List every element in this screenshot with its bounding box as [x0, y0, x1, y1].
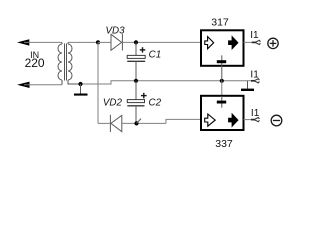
wire VD3 to node B — [122, 41, 200, 43]
wire node D down to U2 — [221, 81, 223, 96]
U2 input hollow arrow — [205, 114, 216, 126]
wire U2 output — [244, 119, 255, 121]
svg-text:C2: C2 — [149, 98, 162, 109]
input arrow bottom — [17, 82, 30, 88]
transformer T1 secondary winding — [68, 42, 81, 84]
U1 output filled arrow — [229, 37, 238, 49]
wire secondary top to node A — [68, 41, 98, 43]
transformer T1 primary winding — [58, 42, 62, 84]
break jack I1 top — [252, 40, 261, 44]
wire node A to VD3 — [98, 41, 111, 43]
capacitor C2 — [127, 81, 144, 124]
diode VD3 — [111, 34, 122, 51]
U1 common pin symbol — [217, 55, 226, 81]
diode VD2 — [110, 115, 121, 132]
break jack I1 bottom — [251, 118, 259, 122]
ground wire from secondary bottom — [81, 81, 255, 84]
ground symbol left — [74, 84, 88, 96]
C2 plus sign — [141, 93, 147, 99]
svg-text:337: 337 — [215, 138, 233, 150]
wire node A down to VD2 row — [97, 42, 99, 123]
U2 common pin symbol — [217, 96, 226, 108]
minus terminal — [271, 115, 282, 126]
node D junction dot (regulator common) — [220, 79, 224, 83]
break jack I1 middle — [251, 79, 259, 83]
node E junction dot (C2 bottom) — [134, 121, 138, 125]
svg-text:C1: C1 — [149, 50, 162, 61]
ground symbol right — [241, 81, 254, 91]
svg-text:I1: I1 — [250, 69, 259, 80]
svg-text:VD2: VD2 — [103, 98, 123, 109]
svg-text:317: 317 — [211, 17, 229, 29]
transformer core — [65, 44, 67, 81]
svg-text:VD3: VD3 — [105, 25, 125, 36]
wire U1 output — [244, 41, 256, 43]
node C junction dot (C1/C2 midpoint) — [134, 79, 138, 83]
wire VD2 row — [98, 122, 110, 124]
wire bottom input — [24, 84, 62, 86]
node B junction dot — [134, 40, 138, 44]
U2 output filled arrow — [229, 114, 238, 126]
U1 input hollow arrow — [205, 37, 214, 49]
svg-text:I1: I1 — [250, 30, 259, 41]
C1 plus sign — [140, 47, 146, 52]
svg-text:220: 220 — [25, 56, 45, 70]
node A junction dot — [96, 40, 100, 44]
wire jog to 337 input — [166, 119, 201, 123]
regulator U2 337 block — [201, 96, 244, 130]
input arrow top — [17, 39, 29, 45]
tick at node E — [137, 119, 142, 124]
regulator U1 317 block — [201, 30, 244, 66]
capacitor C1 — [127, 42, 145, 80]
junction dot secondary bottom — [78, 82, 82, 86]
wire top input — [24, 41, 62, 43]
svg-text:I1: I1 — [251, 108, 260, 119]
plus terminal — [268, 38, 278, 48]
